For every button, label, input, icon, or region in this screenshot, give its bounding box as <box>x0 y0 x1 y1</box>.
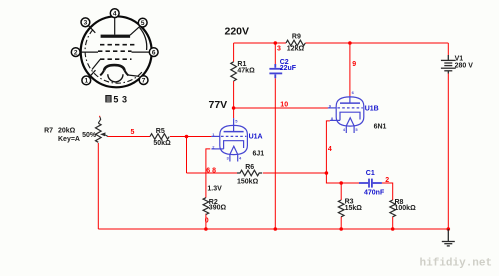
wire node 10 (77V) horizontal <box>234 107 329 109</box>
pot top stub <box>98 117 100 123</box>
ground junction <box>447 227 451 231</box>
C2 bottom junction <box>274 227 278 231</box>
wire U1B cathode to node 4 <box>326 121 359 183</box>
wire 220V corner down to R1 <box>233 43 235 62</box>
wire pot bottom down <box>97 143 99 229</box>
socket lead pin3 inward <box>89 26 96 33</box>
svg-text:hifidiy.net: hifidiy.net <box>420 258 493 270</box>
svg-text:390Ω: 390Ω <box>209 205 227 212</box>
resistor R9 12k horizontal <box>286 40 305 46</box>
resistor R5 50k horizontal <box>150 134 169 140</box>
plate bar <box>224 131 244 133</box>
socket cathode feet <box>100 71 104 76</box>
svg-text:U1B: U1B <box>365 105 379 112</box>
socket outer circle <box>81 16 152 87</box>
R3 bottom junction <box>339 227 343 231</box>
grid stub <box>211 135 220 137</box>
svg-text:2: 2 <box>74 49 78 56</box>
svg-text:1.3V: 1.3V <box>207 185 222 192</box>
svg-text:4: 4 <box>113 10 117 17</box>
socket lead pin7 inward <box>128 75 139 76</box>
capacitor C1 470nF <box>359 179 382 188</box>
wire battery bottom <box>447 74 449 230</box>
cathode stub <box>330 119 340 121</box>
pot top stub red tip <box>99 116 101 117</box>
wire node 6-8 left of R6 <box>187 172 238 174</box>
wire R1 bottom to U1A plate <box>233 81 235 118</box>
svg-text:10: 10 <box>280 102 288 109</box>
socket grid dashed rows <box>98 45 137 60</box>
heater tent <box>346 118 354 126</box>
svg-text:220V: 220V <box>225 26 250 38</box>
wire C1 right to R8 top <box>382 183 393 200</box>
svg-text:R5: R5 <box>156 128 165 135</box>
svg-text:0: 0 <box>205 217 209 224</box>
R3 top junction <box>339 181 343 185</box>
socket lead pin6 to grid <box>132 51 150 53</box>
socket grid left slant <box>92 59 100 69</box>
svg-text:5: 5 <box>141 20 145 27</box>
svg-text:6: 6 <box>152 49 156 56</box>
resistor R1 47k vertical <box>231 62 237 81</box>
socket internal right arc <box>140 28 147 51</box>
svg-text:470nF: 470nF <box>364 190 385 197</box>
svg-text:100kΩ: 100kΩ <box>395 205 417 212</box>
wire C2 top lead <box>274 43 276 64</box>
capacitor C2 22uF <box>269 64 282 78</box>
socket lead pin5 to plate <box>130 27 140 36</box>
envelope <box>336 97 364 126</box>
svg-text:R6: R6 <box>245 164 254 171</box>
svg-text:22uF: 22uF <box>280 65 297 72</box>
svg-text:R9: R9 <box>292 33 301 40</box>
U1B pin numbers <box>329 90 359 132</box>
net number labels <box>131 46 390 225</box>
svg-text:280 V: 280 V <box>455 63 474 70</box>
svg-text:3: 3 <box>277 46 281 53</box>
triode U1A <box>211 118 247 161</box>
socket lead pin2 to grid <box>80 51 98 53</box>
svg-text:15kΩ: 15kΩ <box>345 205 363 212</box>
wire U1A cathode down <box>206 149 210 198</box>
svg-text:20kΩ: 20kΩ <box>58 127 76 134</box>
cathode <box>340 112 360 120</box>
plate bar <box>340 102 360 104</box>
svg-text:Key=A: Key=A <box>58 136 80 143</box>
caption 图5 3 <box>105 94 130 104</box>
wire battery top <box>447 43 449 55</box>
node 9 junction <box>348 41 352 45</box>
svg-text:6J1: 6J1 <box>253 151 265 158</box>
wire R2 bottom <box>205 214 207 229</box>
potentiometer R7 <box>96 123 102 142</box>
grid dashes <box>221 135 246 137</box>
plate lead <box>233 118 235 131</box>
socket plate bar <box>101 35 131 38</box>
tube socket pinout diagram (figure 53) <box>81 16 152 87</box>
svg-text:2: 2 <box>385 177 389 184</box>
wire R3 top lead <box>340 183 342 200</box>
R8 bottom junction <box>391 227 395 231</box>
socket internal shield dashed arc <box>85 30 142 84</box>
R2 bottom junction <box>204 227 208 231</box>
wire feedback drop from grid node <box>186 137 188 174</box>
node 10 junction <box>232 106 236 110</box>
envelope <box>220 125 248 154</box>
wire top rail right of R9 <box>305 42 448 44</box>
cathode stub <box>211 148 223 150</box>
socket heater cup <box>108 74 123 82</box>
U1A pin numbers <box>212 119 242 161</box>
wire bottom ground rail <box>98 228 448 230</box>
socket pin numbers <box>74 10 156 84</box>
socket lead pin4 to plate <box>114 18 116 35</box>
grid feedback junction <box>185 135 189 139</box>
svg-text:53: 53 <box>113 94 130 104</box>
svg-text:77V: 77V <box>209 99 228 111</box>
svg-text:4: 4 <box>328 146 332 153</box>
wire R5 to U1A grid <box>170 136 211 138</box>
heater leads <box>229 154 231 161</box>
ground symbol <box>442 229 455 246</box>
wire node 9 vertical to U1B plate <box>349 43 351 96</box>
battery V1 <box>441 55 456 74</box>
heater tent <box>230 146 238 154</box>
resistor R3 15k vertical <box>338 200 344 217</box>
node 4 junction <box>325 171 329 175</box>
socket lead pin1 inward <box>89 70 95 77</box>
svg-text:47kΩ: 47kΩ <box>237 67 255 74</box>
wire node 6-8 right of R6 <box>263 172 326 174</box>
heater leads <box>345 126 347 133</box>
wire top rail left of R9 <box>234 42 286 44</box>
plate lead <box>349 96 351 103</box>
grid dashes <box>337 107 362 109</box>
resistor R6 150k horizontal <box>237 170 262 176</box>
svg-text:1: 1 <box>84 78 88 85</box>
socket pin circles <box>71 9 158 85</box>
resistor R8 100k vertical <box>390 200 396 217</box>
cathode <box>224 141 244 149</box>
svg-text:V1: V1 <box>455 56 464 63</box>
svg-text:9: 9 <box>352 61 356 68</box>
svg-text:R7: R7 <box>44 127 53 134</box>
svg-text:7: 7 <box>142 77 146 84</box>
svg-text:6N1: 6N1 <box>374 123 387 130</box>
svg-text:5: 5 <box>131 129 135 136</box>
svg-text:3: 3 <box>84 20 88 27</box>
wire C2 bottom to ground rail <box>274 78 276 229</box>
svg-text:12kΩ: 12kΩ <box>287 46 305 53</box>
svg-text:U1A: U1A <box>249 133 263 140</box>
svg-text:50kΩ: 50kΩ <box>153 140 171 147</box>
node 3 junction <box>274 41 278 45</box>
svg-text:50%: 50% <box>82 132 97 139</box>
pot wiper <box>105 135 108 137</box>
svg-text:150kΩ: 150kΩ <box>237 178 259 185</box>
wire R8 bottom <box>392 217 394 230</box>
wire pot wiper to R5 <box>108 136 151 138</box>
resistor R2 390 vertical <box>203 198 209 215</box>
socket cathode dome <box>104 65 125 70</box>
svg-text:C1: C1 <box>366 170 375 177</box>
svg-text:6 8: 6 8 <box>206 168 216 175</box>
triode U1B <box>328 96 364 133</box>
wire R3 bottom <box>340 217 342 230</box>
grid stub <box>328 107 337 109</box>
